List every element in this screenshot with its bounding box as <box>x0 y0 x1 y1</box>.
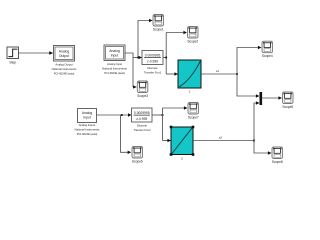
svg-text:Discrete: Discrete <box>137 124 148 128</box>
svg-text:Transfer Fcn1: Transfer Fcn1 <box>144 71 162 75</box>
svg-text:0.0009995: 0.0009995 <box>145 53 161 57</box>
label Discrete Transfer Fcn2 <box>133 124 151 133</box>
svg-text:s2: s2 <box>219 136 223 140</box>
label Discrete Transfer Fcn1 <box>144 66 162 75</box>
scope Scope5 <box>282 92 293 109</box>
block Discrete Transfer Fcn2 <box>132 108 153 122</box>
svg-text:Analog: Analog <box>82 111 93 115</box>
svg-text:National Instruments: National Instruments <box>75 128 100 132</box>
wire Analog Input output with branches <box>125 19 153 89</box>
wire s1 from block 1 <box>201 46 262 98</box>
svg-text:Discrete: Discrete <box>147 66 158 70</box>
svg-text:Transfer Fcn2: Transfer Fcn2 <box>133 128 151 132</box>
wire s2 from block 2 <box>193 101 272 154</box>
svg-text:Scope4: Scope4 <box>262 54 273 58</box>
label Analog Input <box>102 62 127 75</box>
svg-text:z-0.999: z-0.999 <box>136 117 147 121</box>
scope Scope2 <box>187 27 198 44</box>
lookup block 1 (teal, exp curve) <box>178 60 201 94</box>
label Analog Output <box>52 63 77 76</box>
mux <box>260 92 283 105</box>
svg-text:PCI-6024E [auto]: PCI-6024E [auto] <box>54 72 75 76</box>
svg-text:s1: s1 <box>216 69 220 73</box>
scope Scope3 <box>137 81 148 98</box>
scope Scope6 <box>132 147 143 164</box>
svg-text:Input: Input <box>83 116 91 120</box>
svg-text:Scope2: Scope2 <box>187 40 198 44</box>
wire Discrete Transfer Fcn1 output branches <box>163 31 187 76</box>
block Discrete Transfer Fcn1 <box>142 51 163 65</box>
driver block Analog Input <box>104 45 125 61</box>
svg-text:Scope7: Scope7 <box>188 116 199 120</box>
wire Step to Analog Output <box>19 51 54 54</box>
svg-text:Scope6: Scope6 <box>132 160 143 164</box>
svg-text:PCI-6024E [auto]: PCI-6024E [auto] <box>104 71 125 75</box>
label Analog Input1 <box>75 123 100 136</box>
svg-text:PCI-6024E [auto]: PCI-6024E [auto] <box>77 132 98 136</box>
svg-text:z-0.999: z-0.999 <box>147 60 158 64</box>
scope Scope8 <box>272 147 283 164</box>
source block Step <box>7 47 19 65</box>
svg-text:Step: Step <box>9 61 16 65</box>
scope Scope7 <box>188 103 199 120</box>
svg-text:Analog Input1: Analog Input1 <box>79 123 96 127</box>
lookup block 2 (teal, selected, diagonal) <box>170 126 195 161</box>
driver block Analog Output <box>54 46 75 62</box>
svg-text:Input: Input <box>111 53 119 57</box>
svg-text:Scope1: Scope1 <box>153 28 164 32</box>
scope Scope4 <box>262 41 273 58</box>
svg-text:Analog Input: Analog Input <box>107 62 122 66</box>
driver block Analog Input1 <box>78 109 97 123</box>
svg-text:Scope5: Scope5 <box>282 105 293 109</box>
wire Discrete Transfer Fcn2 output branches <box>152 106 188 142</box>
svg-text:0.0009995: 0.0009995 <box>134 111 150 115</box>
svg-text:Analog: Analog <box>59 49 70 53</box>
svg-text:Analog: Analog <box>109 49 120 53</box>
scope Scope1 <box>153 15 164 32</box>
svg-text:National Instruments: National Instruments <box>102 67 127 71</box>
svg-text:National Instruments: National Instruments <box>52 67 77 71</box>
svg-text:Output: Output <box>59 54 69 58</box>
wire Analog Input1 output with branch to Scope6 <box>97 113 132 154</box>
svg-text:Analog Output: Analog Output <box>55 63 72 67</box>
svg-text:Scope8: Scope8 <box>272 160 283 164</box>
svg-text:Scope3: Scope3 <box>137 94 148 98</box>
